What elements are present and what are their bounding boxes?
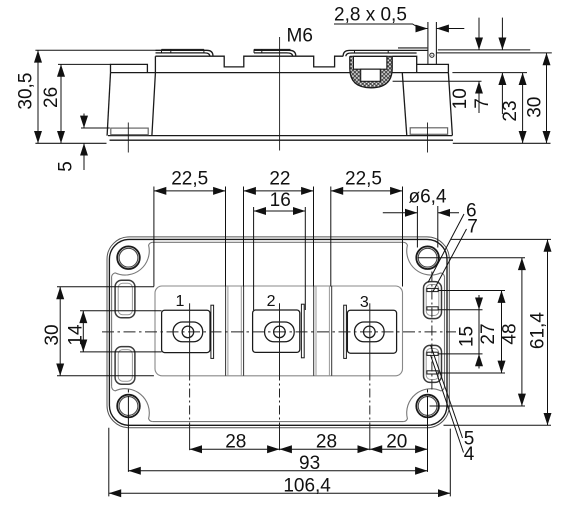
terminal 3 square (347, 310, 396, 353)
dim 22,5 first line (154, 190, 226, 192)
left slot A inner (118, 283, 132, 315)
dim 14 line (82, 311, 84, 352)
left slot A outer (115, 280, 135, 318)
dim 2,8 right arrow (437, 28, 465, 30)
dim 48 line (521, 258, 523, 406)
inner outline bottom edge (153, 421, 403, 423)
mounting hole bottom-right (416, 395, 439, 418)
wire case bottom edge lower (110, 139, 454, 141)
left slot B inner (118, 350, 132, 382)
mounting hole bottom-left (117, 395, 140, 418)
dim 93 line (128, 470, 427, 472)
terminal 1 square (162, 310, 210, 352)
dim 30 left extensions (57, 287, 154, 376)
leader 7 (433, 229, 467, 292)
inner outline top-right scallop (403, 242, 444, 278)
dim ø6,4 left arrow (383, 212, 418, 214)
mounting hole top-right (416, 246, 439, 269)
terminal 3 centerline (369, 303, 371, 371)
right slot 1 outer (424, 282, 442, 319)
dim 15 upper outside arrow (478, 295, 480, 310)
terminal tab 2 plate top (254, 50, 296, 56)
right slot 1 bar lower (427, 307, 438, 310)
svg-text:2,8 x 0,5: 2,8 x 0,5 (334, 5, 407, 26)
svg-text:10: 10 (450, 88, 471, 109)
seating plane right segment (453, 142, 551, 144)
terminal 2 centerline (279, 303, 281, 371)
svg-text:M6: M6 (287, 26, 313, 47)
seating plane left segment (35, 142, 106, 144)
right slot 2 inner (426, 349, 439, 380)
M6 nut cavity (353, 56, 387, 69)
inner outline top edge (153, 241, 403, 243)
dim 16 line (254, 210, 306, 212)
tab 2 ticks and bump (254, 49, 291, 53)
terminal 2 bar (301, 304, 304, 358)
right tower left slant edge (402, 73, 407, 136)
dim 10 lower extension (393, 80, 482, 82)
inner outline right edge (444, 278, 446, 386)
svg-text:30: 30 (525, 97, 546, 118)
terminal 2 screw hole (274, 326, 286, 338)
dim 22,5 second line (331, 190, 403, 192)
terminal 3 screw obround (355, 322, 385, 342)
dim 27 extensions (439, 291, 506, 374)
M6 nut pocket hatch (350, 56, 392, 88)
terminal 1 bar (211, 305, 214, 358)
dim 23 line (522, 73, 524, 144)
dim 20 line (370, 448, 428, 450)
svg-text:3: 3 (360, 294, 369, 311)
dim 15 extensions (439, 310, 483, 354)
inner outline bottom-left scallop (112, 386, 153, 421)
deck 1 outline (155, 56, 343, 67)
faston tab 2.8x0.5 (428, 22, 437, 64)
dim ø6,4 right arrow (438, 212, 459, 214)
svg-text:5: 5 (56, 161, 77, 172)
main horizontal centerline (102, 331, 456, 333)
cover top extension (436, 52, 551, 54)
top surface extension (438, 49, 530, 51)
svg-text:22: 22 (269, 168, 290, 189)
svg-text:30: 30 (42, 324, 63, 345)
left slot B outer (115, 347, 135, 385)
wire case top edge (111, 72, 449, 74)
dim 61,4 extensions (444, 239, 552, 425)
inner outline top-left scallop (112, 242, 153, 278)
svg-text:7: 7 (472, 98, 493, 109)
right slot 1 inner (426, 285, 439, 316)
dim 15 middle line (478, 310, 480, 354)
terminal tab 1 plate bottom (156, 53, 210, 56)
terminal 3 bar (344, 305, 347, 358)
wire case bottom edge upper (108, 135, 452, 137)
M6 pocket top edge (350, 55, 392, 57)
svg-text:26: 26 (41, 87, 62, 108)
svg-text:16: 16 (270, 190, 291, 211)
M6 terminal plate bottom (346, 53, 417, 56)
tab 1 ticks and bump (162, 49, 204, 53)
dim 7 top arrow (501, 18, 503, 50)
dim 5 lower arrow (83, 143, 85, 170)
svg-text:2: 2 (267, 293, 276, 310)
svg-text:61,4: 61,4 (528, 312, 549, 349)
terminal 1 screw hole (182, 326, 194, 338)
svg-text:30,5: 30,5 (16, 73, 37, 110)
dim 16 extensions (254, 207, 306, 310)
leader 4 (431, 355, 464, 453)
svg-text:7: 7 (467, 217, 478, 238)
svg-text:14: 14 (66, 324, 87, 346)
left tower top tab (111, 64, 148, 73)
left hole centerline (127, 123, 129, 153)
dim 2,8x0,5 leader underline (334, 24, 420, 29)
left tower left slant edge (107, 73, 110, 136)
right slot 1 bar upper (427, 288, 438, 291)
dim 10 top arrow (478, 18, 480, 50)
inner outline bottom-right scallop (403, 386, 444, 421)
svg-text:28: 28 (225, 432, 246, 453)
leader 5 (431, 345, 463, 438)
dim 15 lower outside arrow (478, 354, 480, 369)
dim 26 line (60, 64, 62, 143)
dim 30,5 top extension (35, 49, 155, 51)
dim 22 line (244, 190, 314, 192)
dim 30 right line (546, 53, 548, 143)
terminal 1 screw obround (173, 322, 203, 342)
dim ø6,4 extensions (417, 206, 437, 248)
module edge extensions bottom (109, 428, 451, 497)
separator strip 2 (314, 286, 332, 376)
svg-text:4: 4 (464, 444, 475, 465)
module case outline (109, 239, 447, 425)
dim 22,5 second extensions (331, 187, 403, 287)
M6 nut pocket outer U (350, 56, 392, 88)
right slot 2 bar lower (427, 371, 438, 374)
svg-text:22,5: 22,5 (345, 168, 382, 189)
dim 22 extensions (244, 187, 314, 287)
dim 10 bottom arrow (478, 81, 480, 113)
svg-text:48: 48 (500, 323, 521, 344)
M6 plate ticks (355, 50, 389, 53)
dim 28 first line (190, 448, 280, 450)
svg-text:28: 28 (316, 432, 337, 453)
dim 26 top extension (58, 63, 111, 65)
dim 5 extension (81, 127, 110, 129)
right slot 2 bar upper (427, 352, 438, 355)
dim 7 bottom arrow (501, 73, 503, 114)
right tower foot pad (410, 128, 447, 135)
faston tab hole (430, 53, 434, 57)
case top right extension (452, 72, 527, 74)
right slot 2 outer (424, 345, 442, 382)
svg-text:1: 1 (175, 293, 184, 310)
dim 48 extensions (418, 258, 525, 406)
right hole centerline (427, 123, 429, 153)
dim 30 left line (59, 287, 61, 376)
dim 27 line (501, 291, 503, 374)
svg-text:22,5: 22,5 (171, 168, 208, 189)
dim 106,4 line (109, 492, 451, 494)
terminal 3 screw hole (364, 326, 376, 338)
dim 28 second line (280, 448, 370, 450)
dim 2,8 left arrow (420, 28, 428, 30)
dim 14 extensions (80, 311, 162, 352)
svg-text:ø6,4: ø6,4 (409, 187, 447, 208)
M6 terminal plate top (343, 50, 428, 56)
svg-text:93: 93 (299, 453, 320, 474)
left tower foot pad (111, 128, 148, 135)
module baseplate outline (107, 237, 449, 428)
dim 22,5 first extensions (154, 187, 226, 287)
terminal tab 1 plate top (156, 50, 214, 56)
dim 5 upper arrow (83, 114, 85, 129)
right tower top tab (417, 64, 449, 73)
hole centerline extensions bottom (128, 390, 427, 472)
terminal 1 centerline (189, 303, 191, 371)
left tower right edge with deck1 step (152, 56, 156, 135)
dim 30,5 line (37, 50, 39, 143)
terminal 2 screw obround (265, 322, 295, 342)
svg-text:23: 23 (500, 100, 521, 121)
dim 61,4 line (547, 239, 549, 425)
svg-text:106,4: 106,4 (283, 476, 331, 497)
right slots centerline (431, 272, 433, 393)
inner outline left edge (111, 278, 113, 386)
svg-text:20: 20 (386, 432, 407, 453)
mounting hole top-left (117, 246, 140, 269)
terminal 2 square (253, 310, 300, 352)
central plateau (155, 286, 403, 376)
right tower right slant edge (448, 73, 452, 136)
svg-text:15: 15 (457, 326, 478, 347)
deck 3 right portion (392, 56, 417, 64)
terminal tab 2 plate bottom (254, 53, 293, 56)
terminal2 centerline (279, 37, 281, 151)
M6 lower slot (361, 69, 381, 81)
leader 6 (428, 214, 464, 283)
M6 washer line (398, 47, 427, 49)
svg-text:27: 27 (478, 323, 499, 344)
separator strip 1 (226, 286, 244, 376)
